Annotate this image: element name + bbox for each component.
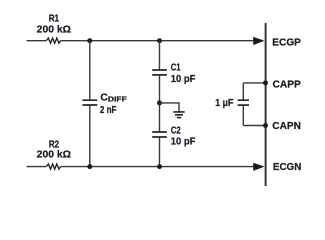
capacitor C2 (152, 132, 167, 137)
svg-text:ECGP: ECGP (272, 37, 301, 48)
svg-text:1 µF: 1 µF (215, 98, 233, 109)
node CAPN (263, 123, 268, 128)
wire to ground (160, 103, 180, 112)
svg-text:R1: R1 (49, 14, 60, 25)
wire CDIFF column lower (89, 105, 91, 167)
node junction bottom of C2 (157, 164, 162, 169)
wire 1uF branch upper (242, 83, 244, 100)
ground (173, 112, 184, 118)
svg-text:10 pF: 10 pF (171, 136, 196, 147)
wire CAPP stub (243, 82, 265, 84)
wire bottom rail to arrow (61, 166, 254, 168)
wire CDIFF column upper (89, 41, 91, 100)
wire C2 column lower (159, 137, 161, 167)
svg-text:CAPN: CAPN (272, 121, 301, 132)
svg-text:CAPP: CAPP (273, 79, 301, 90)
wire C1 to C2 (159, 75, 161, 132)
wire CAPN stub (243, 125, 265, 127)
svg-text:2 nF: 2 nF (100, 105, 117, 116)
wire 1uF branch lower (242, 105, 244, 125)
arrow into ECGN (253, 163, 264, 171)
capacitor CDIFF (82, 100, 97, 105)
node junction bottom of CDIFF (87, 164, 92, 169)
svg-text:C2: C2 (171, 125, 181, 136)
svg-text:C1: C1 (171, 63, 181, 74)
wire C1 column upper (159, 41, 161, 70)
svg-text:200 kΩ: 200 kΩ (37, 25, 71, 36)
node junction C1/C2 midpoint (157, 100, 162, 105)
wire top rail left segment (27, 40, 47, 42)
node junction top of C1 (157, 38, 162, 43)
wire bottom rail left segment (27, 166, 47, 168)
wire top rail to arrow (61, 40, 254, 42)
capacitor 1uF (238, 100, 249, 105)
svg-text:10 pF: 10 pF (171, 74, 196, 85)
device edge rail (265, 23, 267, 186)
node CAPP (263, 80, 268, 85)
capacitor C1 (152, 70, 167, 75)
resistor R1 (46, 38, 61, 43)
svg-text:200 kΩ: 200 kΩ (37, 149, 71, 160)
resistor R2 (46, 164, 61, 169)
arrow into ECGP (253, 37, 264, 45)
node junction top of CDIFF (87, 38, 92, 43)
svg-text:ECGN: ECGN (273, 162, 301, 173)
